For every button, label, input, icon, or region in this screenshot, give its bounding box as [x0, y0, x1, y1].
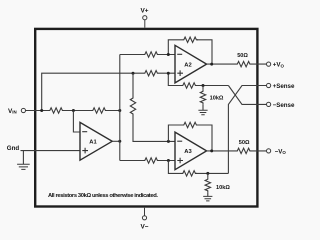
- node: R2/A1out vertical: [118, 109, 121, 112]
- terminal -VO: [267, 149, 271, 153]
- wire: A1 - input: [73, 111, 80, 133]
- wire: A3 feedback loop: [168, 125, 212, 151]
- wire + ground under 10k A3: [207, 173, 209, 196]
- resistor R11 (30k A3 feedback): [182, 122, 198, 127]
- op-amp A3: [175, 132, 207, 170]
- svg-text:V+: V+: [141, 8, 149, 15]
- svg-text:10kΩ: 10kΩ: [216, 185, 230, 191]
- resistor R12 (30k A3 lower): [181, 171, 197, 176]
- wire: A3 + lower branch: [168, 161, 228, 174]
- svg-text:A2: A2: [184, 62, 191, 68]
- resistor R8 (50 ohm top): [236, 61, 252, 66]
- node: A3 + tap: [167, 159, 170, 162]
- svg-text:A1: A1: [89, 140, 97, 146]
- svg-text:+VO: +VO: [273, 62, 285, 69]
- resistor R1 (30k input): [48, 108, 64, 113]
- svg-text:10kΩ: 10kΩ: [210, 95, 224, 101]
- resistor R9 (30k cross A2+ to A3-) vertical: [130, 97, 135, 116]
- resistor R5 (30k A2 feedback): [182, 37, 198, 42]
- VIN terminal: [8, 108, 26, 115]
- resistor R14 (50 ohm bottom): [236, 148, 252, 153]
- node: A2 output: [210, 63, 213, 66]
- node: A3 lower / 10k: [206, 172, 209, 175]
- wire: A2 node to -Sense (diagonal down): [228, 86, 266, 105]
- node: Vin/R1 junction: [40, 109, 43, 112]
- ground: A3 10k: [203, 196, 212, 201]
- wire: A3 output: [207, 150, 267, 152]
- wire + ground under 10k: [202, 86, 204, 111]
- op-amp A1: [80, 122, 112, 160]
- wire: long vertical A1out rail: [119, 55, 121, 161]
- resistor R7 (10k) vertical: [200, 90, 205, 105]
- op-amp A2: [175, 45, 207, 83]
- wire: Gnd to A1 + input: [21, 150, 81, 152]
- wire: A3 node rail to +Sense (diagonal up): [228, 86, 266, 174]
- svg-text:50Ω: 50Ω: [237, 53, 248, 59]
- node: A3 output: [210, 149, 213, 152]
- ground: A2 10k: [198, 110, 207, 115]
- node: R1/R2 junction: [72, 109, 75, 112]
- terminal +Sense: [267, 83, 271, 87]
- terminal -Sense: [267, 102, 271, 106]
- outer block border: [35, 29, 257, 207]
- Gnd terminal label: [7, 145, 20, 152]
- wire: A2 output: [207, 63, 267, 65]
- V+ terminal: [141, 8, 149, 28]
- terminal +VO: [267, 62, 271, 66]
- wire: A2 feedback loop: [168, 40, 212, 64]
- resistor R10 (30k to A3 +): [143, 158, 159, 163]
- wire: cross resistor vertical: [133, 73, 175, 141]
- node: A2 - feedback tap: [167, 53, 170, 56]
- svg-text:V−: V−: [141, 224, 149, 231]
- wire: A1 output: [112, 140, 120, 142]
- svg-text:−Sense: −Sense: [273, 102, 295, 109]
- svg-text:Gnd: Gnd: [7, 145, 20, 152]
- resistor R13 (10k) vertical: [205, 178, 210, 193]
- wire: Vin line: [25, 110, 119, 112]
- input ground symbol: [17, 151, 30, 170]
- svg-text:+Sense: +Sense: [273, 83, 295, 90]
- wire: A3 + input from A1out rail: [120, 160, 175, 162]
- node: upper rail / cross resistor: [132, 72, 135, 75]
- svg-text:All resistors 30kΩ unless othe: All resistors 30kΩ unless otherwise indi…: [48, 193, 158, 199]
- resistor R2 (30k A1 feedback): [91, 108, 107, 113]
- wire: rail to A2 - resistor: [120, 54, 175, 56]
- node: A3 - line tap: [167, 140, 170, 143]
- svg-text:50Ω: 50Ω: [239, 140, 250, 146]
- svg-text:−VO: −VO: [275, 148, 287, 155]
- V- terminal: [141, 208, 149, 231]
- wire: Vin to A2 + (upper rail): [42, 73, 133, 110]
- node: A1 output: [118, 140, 121, 143]
- resistor R6 (30k A2 lower): [181, 83, 197, 88]
- node: A2 lower / 10k: [202, 84, 205, 87]
- node: A2 + tap: [167, 72, 170, 75]
- wire: upper rail to A2 + resistor: [133, 72, 175, 74]
- wire: A2 + lower branch: [168, 73, 228, 85]
- resistor R3 (30k to A2 -): [143, 52, 159, 57]
- svg-text:VIN: VIN: [8, 108, 17, 115]
- svg-text:A3: A3: [184, 149, 192, 155]
- resistor R4 (30k to A2 +): [143, 71, 159, 76]
